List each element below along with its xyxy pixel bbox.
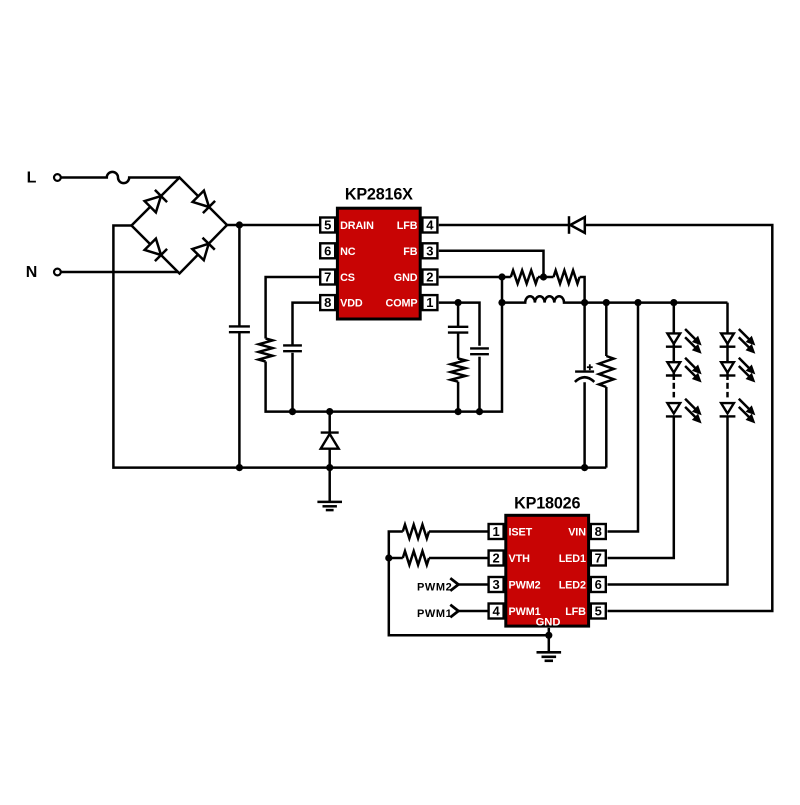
- svg-text:LFB: LFB: [565, 606, 586, 618]
- svg-text:GND: GND: [394, 272, 418, 284]
- svg-text:CS: CS: [340, 272, 355, 284]
- svg-text:KP18026: KP18026: [514, 495, 580, 513]
- svg-text:5: 5: [324, 218, 331, 233]
- svg-text:7: 7: [595, 551, 602, 566]
- svg-text:8: 8: [324, 295, 331, 310]
- svg-text:2: 2: [492, 551, 499, 566]
- svg-text:1: 1: [426, 295, 433, 310]
- svg-text:LFB: LFB: [397, 220, 418, 232]
- svg-text:VIN: VIN: [568, 527, 586, 539]
- svg-text:7: 7: [324, 270, 331, 285]
- svg-text:8: 8: [595, 524, 602, 539]
- svg-text:DRAIN: DRAIN: [340, 220, 374, 232]
- svg-text:LED1: LED1: [559, 553, 586, 565]
- svg-text:COMP: COMP: [386, 298, 418, 310]
- svg-text:GND: GND: [536, 616, 561, 628]
- svg-text:VTH: VTH: [509, 553, 531, 565]
- svg-text:5: 5: [595, 604, 602, 619]
- svg-text:3: 3: [426, 243, 433, 258]
- svg-text:2: 2: [426, 270, 433, 285]
- svg-text:N: N: [26, 264, 38, 281]
- svg-text:6: 6: [595, 577, 602, 592]
- svg-text:NC: NC: [340, 246, 356, 258]
- svg-text:PWM2: PWM2: [417, 582, 452, 594]
- svg-text:PWM2: PWM2: [509, 580, 541, 592]
- svg-text:VDD: VDD: [340, 298, 363, 310]
- svg-text:4: 4: [492, 604, 500, 619]
- svg-text:3: 3: [492, 577, 499, 592]
- svg-text:PWM1: PWM1: [417, 608, 452, 620]
- svg-text:ISET: ISET: [509, 527, 533, 539]
- svg-text:LED2: LED2: [559, 580, 586, 592]
- svg-text:KP2816X: KP2816X: [345, 186, 413, 204]
- svg-text:FB: FB: [403, 246, 417, 258]
- svg-text:L: L: [27, 170, 37, 187]
- svg-text:4: 4: [426, 218, 434, 233]
- svg-text:6: 6: [324, 243, 331, 258]
- svg-text:1: 1: [492, 524, 499, 539]
